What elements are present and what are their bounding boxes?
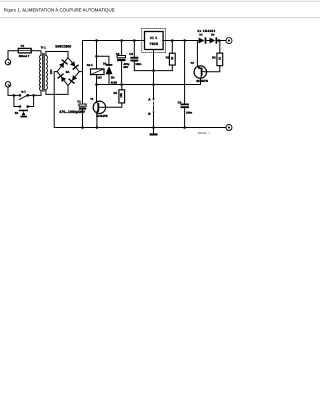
capacitor C3 (130, 57, 138, 62)
relay contact re1 blade (19, 95, 28, 100)
mains terminal lower (5, 82, 10, 87)
capacitor C4 (181, 104, 190, 109)
svg-text:12V: 12V (50, 69, 53, 74)
diode D3 1N4001 (210, 37, 218, 43)
wire S1 branch right (28, 95, 34, 106)
svg-text:R2: R2 (212, 56, 216, 60)
capacitor C2 (117, 56, 125, 62)
wire C2 branch (121, 41, 123, 56)
connector dashed link (153, 103, 155, 111)
wire R3 bottom (171, 65, 173, 71)
svg-text:470...1000µ/25V: 470...1000µ/25V (59, 110, 85, 114)
svg-text:984078 - 1: 984078 - 1 (198, 132, 211, 135)
wire T1 emitter to ground rail (96, 113, 98, 128)
wire IC output rail (163, 40, 199, 42)
wire R1 top (121, 85, 123, 90)
diode D2 1N4148 (106, 64, 113, 74)
svg-text:25V: 25V (123, 66, 128, 69)
wire R2 bottom to T2 base (207, 66, 220, 72)
wire C4 bottom (184, 108, 186, 127)
svg-text:re 1: re 1 (21, 90, 26, 94)
svg-text:BC557B: BC557B (196, 79, 208, 83)
svg-text:Figure 1. ALIMENTATION À COUPU: Figure 1. ALIMENTATION À COUPURE AUTOMAT… (4, 8, 116, 13)
svg-text:1k: 1k (219, 57, 222, 60)
svg-text:250mA T: 250mA T (19, 55, 30, 58)
wire bridge right vertex / +V vertical (79, 71, 82, 73)
labels (15, 29, 222, 135)
svg-text:C1: C1 (77, 100, 81, 104)
diode D1 1N4001 (199, 37, 207, 43)
connector arrow B (152, 112, 155, 114)
svg-text:Re 1: Re 1 (87, 63, 93, 67)
svg-text:10k: 10k (120, 93, 123, 98)
wire lower terminal to switch (8, 87, 20, 95)
svg-text:S1: S1 (15, 111, 19, 115)
wire C1 to ground rail (82, 110, 84, 128)
bridge rectifier B1 diamond (57, 58, 79, 86)
transistor T2 (194, 41, 206, 79)
svg-text:T1: T1 (90, 97, 94, 101)
IC1 7805 body (145, 32, 164, 50)
resistor R1 (119, 90, 125, 103)
svg-text:Tr 1: Tr 1 (41, 45, 47, 49)
svg-text:C2: C2 (116, 52, 120, 56)
fuse F1 (18, 48, 31, 53)
top rule (0, 0, 320, 2)
svg-text:2x 1N4001: 2x 1N4001 (197, 29, 215, 33)
wire primary bottom to switch (34, 91, 41, 96)
wire secondary bottom to bridge (46, 86, 68, 95)
wire fuse to transformer primary (31, 51, 41, 55)
wire between diodes (206, 40, 210, 42)
svg-text:D2: D2 (103, 62, 107, 65)
ground rail (54, 127, 226, 129)
top rail (83, 40, 145, 42)
wire C3 bottom to IC ground line (134, 62, 172, 71)
svg-text:100n: 100n (186, 111, 192, 114)
wire bridge left vertex to ground rail (54, 72, 57, 128)
wire R3 top (171, 41, 173, 54)
wire C4 branch (184, 41, 186, 104)
svg-text:1k: 1k (171, 56, 174, 59)
wire IC ground pin (153, 50, 155, 101)
resistor R3 (169, 53, 175, 65)
transformer Tr1 primary winding (39, 55, 41, 90)
wire R2 top (219, 41, 221, 54)
bridge diode top-right (70, 61, 78, 69)
wire T2 collector to node wire (200, 78, 202, 84)
svg-text:1N: 1N (111, 76, 115, 80)
svg-text:T2: T2 (191, 61, 195, 65)
IC1 dashed outline (142, 28, 166, 52)
svg-text:7805: 7805 (149, 42, 158, 46)
svg-text:C4: C4 (178, 100, 182, 104)
svg-text:B40C1500: B40C1500 (55, 44, 71, 48)
svg-text:IC 1: IC 1 (150, 36, 157, 40)
node wire horizontal (97, 84, 201, 86)
wire secondary top to bridge (46, 52, 68, 58)
wire relay branch (96, 41, 98, 69)
svg-text:C3: C3 (129, 52, 133, 56)
ground symbol (150, 128, 158, 136)
svg-text:12V: 12V (97, 76, 102, 79)
wire D2 anode down (108, 74, 110, 84)
svg-text:B1: B1 (66, 70, 70, 74)
wire S1 branch left (14, 95, 20, 106)
mains terminal upper (5, 59, 10, 64)
relay coil Re1 (91, 69, 105, 75)
wire connector B to ground rail (153, 114, 155, 128)
output terminal plus (226, 38, 232, 44)
resistor R2 (217, 53, 223, 66)
wire switch right to transformer (28, 94, 34, 96)
svg-text:BC547B: BC547B (96, 114, 108, 118)
junction dots (13, 39, 221, 129)
transformer core (43, 54, 45, 92)
wire T1 base to R1 (106, 103, 122, 107)
svg-text:R1: R1 (114, 91, 118, 95)
wire upper terminal to fuse (8, 51, 18, 59)
wire relay to T1 collector (96, 75, 98, 102)
connector arrow A (152, 98, 155, 100)
transformer Tr1 secondary winding (46, 56, 48, 90)
svg-text:4148: 4148 (111, 81, 118, 85)
push button S1 (19, 110, 28, 118)
transistor T1 (93, 101, 105, 113)
wire D3 to output terminal (217, 40, 226, 42)
bridge diode bottom-right (69, 75, 77, 83)
svg-text:F1: F1 (21, 44, 25, 48)
wire diode D2 top branch (97, 56, 109, 64)
capacitor C1 (79, 104, 86, 110)
svg-text:R3: R3 (166, 56, 170, 60)
wire C2 bottom (121, 61, 123, 84)
bridge diode bottom-left (58, 74, 66, 82)
rule under title (0, 17, 320, 19)
output terminal minus (226, 125, 232, 131)
svg-text:100n: 100n (135, 63, 141, 66)
bridge diode top-left (59, 60, 67, 68)
wire C3 branch (133, 41, 135, 57)
